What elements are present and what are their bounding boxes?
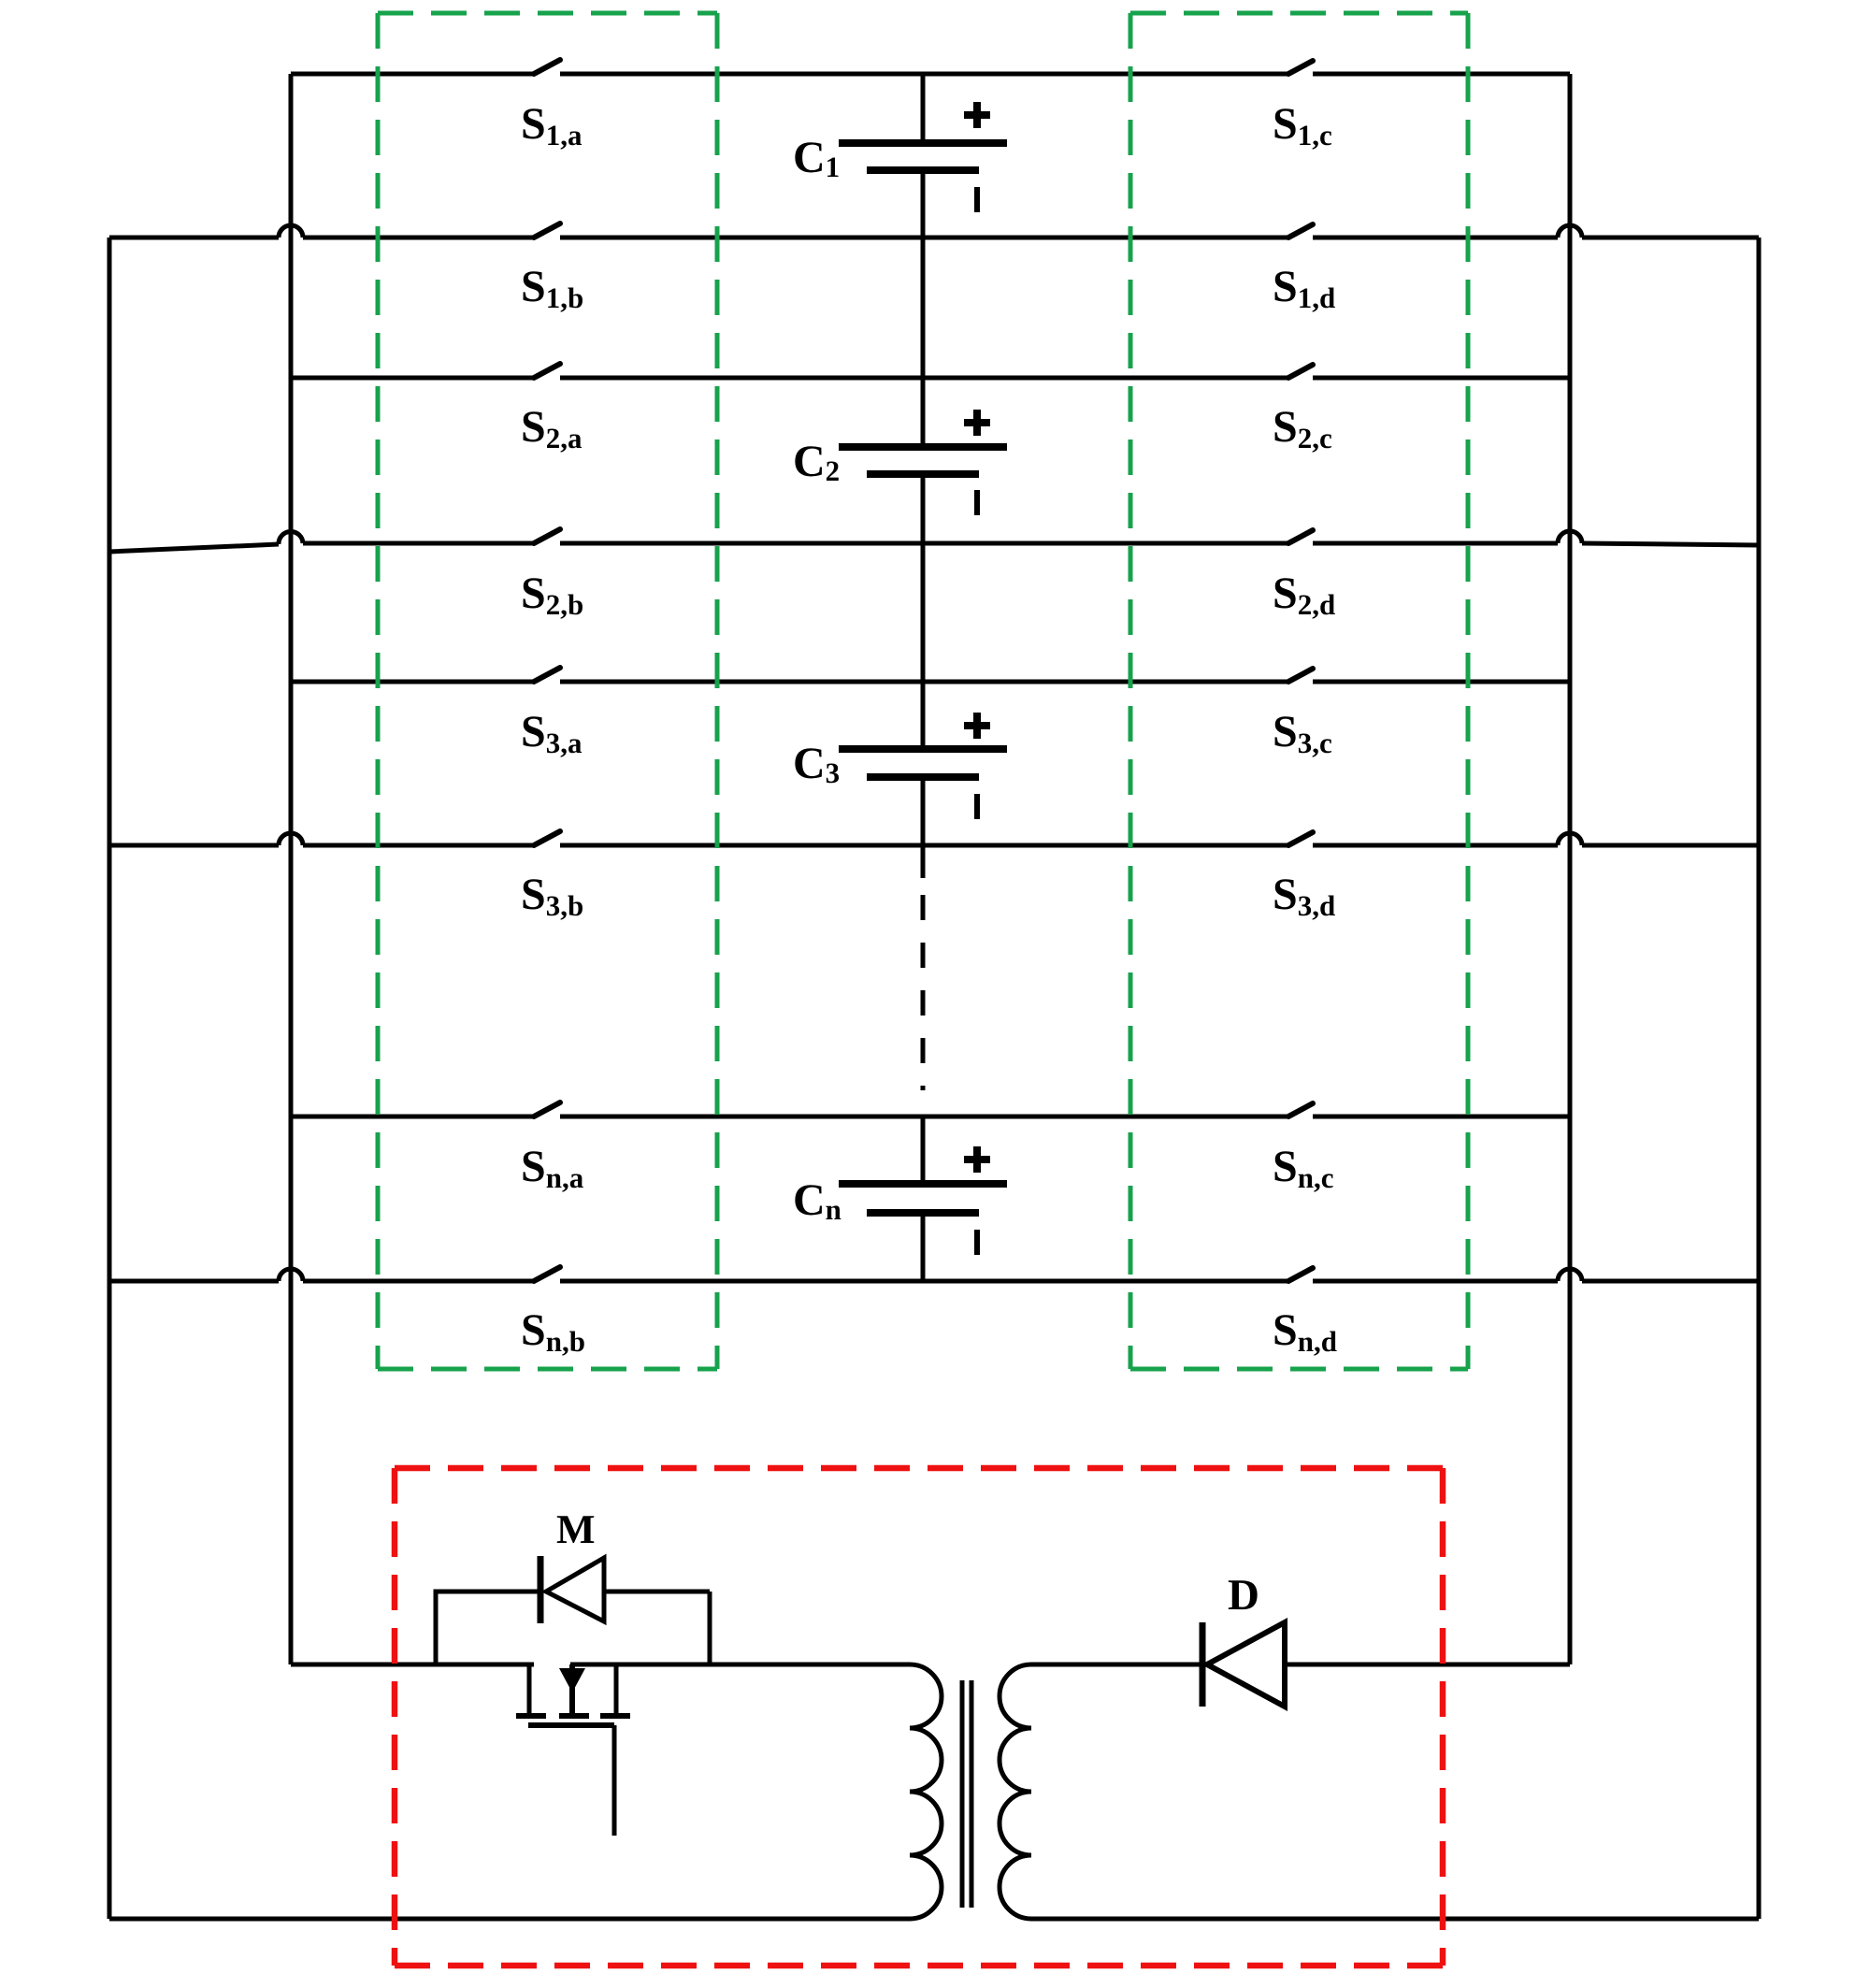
svg-text:S2,c: S2,c [1273,402,1332,454]
svg-text:S2,b: S2,b [521,569,583,621]
svg-text:C2: C2 [793,437,840,487]
svg-text:S2,a: S2,a [521,402,583,454]
svg-text:S3,d: S3,d [1273,870,1335,922]
svg-text:S3,b: S3,b [521,870,583,922]
svg-text:Sn,c: Sn,c [1273,1142,1333,1194]
svg-text:S1,b: S1,b [521,262,583,314]
svg-text:C1: C1 [793,133,840,183]
svg-text:S3,a: S3,a [521,707,583,759]
svg-text:Sn,b: Sn,b [521,1305,585,1358]
svg-text:S1,c: S1,c [1273,99,1332,151]
svg-text:Sn,d: Sn,d [1273,1305,1337,1358]
svg-text:M: M [556,1506,596,1552]
svg-text:S1,d: S1,d [1273,262,1335,314]
svg-text:C3: C3 [793,739,840,789]
svg-text:Cn: Cn [793,1175,841,1226]
svg-text:D: D [1228,1571,1259,1620]
svg-text:Sn,a: Sn,a [521,1142,584,1194]
svg-text:S2,d: S2,d [1273,569,1335,621]
svg-text:S1,a: S1,a [521,99,583,151]
svg-text:S3,c: S3,c [1273,707,1332,759]
